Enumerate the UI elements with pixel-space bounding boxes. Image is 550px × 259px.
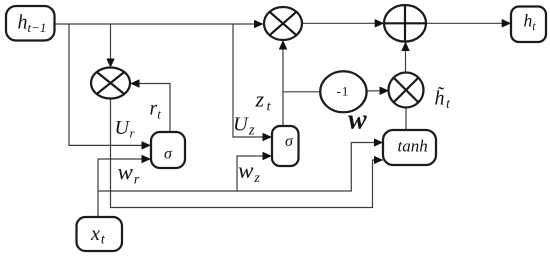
svg-text:σ: σ [164,146,173,163]
svg-text:-1: -1 [337,84,349,99]
svg-text:wr: wr [118,159,140,187]
svg-text:w: w [348,105,367,136]
svg-text:zt: zt [255,87,272,115]
svg-text:σ: σ [285,133,294,150]
svg-text:Uz: Uz [233,114,255,139]
svg-text:h̃t: h̃t [435,86,452,112]
svg-text:rt: rt [150,98,162,122]
svg-text:Ur: Ur [115,117,136,141]
svg-text:wz: wz [238,158,260,186]
svg-text:tanh: tanh [398,137,428,156]
